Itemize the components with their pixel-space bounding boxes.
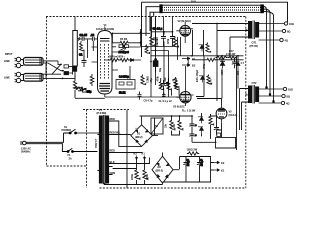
- wire row58: [105, 59, 142, 61]
- svg-text:OT2: OT2: [252, 81, 258, 85]
- svg-text:8Ω: 8Ω: [287, 30, 290, 34]
- filter box: [151, 118, 163, 134]
- wire selector to pot: [63, 66, 75, 78]
- zener D4: [199, 45, 205, 52]
- resistor R7b: [145, 45, 150, 55]
- svg-text:CL 9.1 μ x2: CL 9.1 μ x2: [159, 99, 173, 103]
- svg-text:4Ω: 4Ω: [286, 102, 289, 106]
- capacitor C8b: [162, 93, 166, 98]
- capacitor C4: [153, 27, 167, 47]
- resistor R4: [73, 81, 78, 98]
- svg-text:6.8 100μ: 6.8 100μ: [119, 75, 129, 79]
- wire bar left drop 3: [150, 12, 159, 31]
- junction dot a: [45, 62, 47, 64]
- wire K row: [104, 157, 163, 185]
- svg-text:100μF: 100μF: [201, 159, 204, 166]
- switch S1: [64, 129, 100, 134]
- resistor R3: [76, 87, 87, 90]
- tube V2 6L6: [176, 22, 193, 43]
- svg-text:16Ω: 16Ω: [289, 22, 294, 26]
- junction square v: [269, 93, 271, 95]
- selector network S2: [64, 65, 73, 75]
- capacitor C10: [189, 120, 197, 142]
- output transformer OT2: [249, 85, 259, 104]
- wire AC lines: [26, 133, 67, 152]
- resistor R16: [228, 56, 237, 59]
- resistor R16b: [206, 58, 216, 61]
- svg-text:(6CA4): (6CA4): [229, 113, 237, 117]
- capacitor C8: [138, 92, 142, 100]
- wire long A row: [151, 55, 244, 57]
- resistor R2b grid leak: [80, 41, 85, 59]
- svg-text:V2 (6L6GC): V2 (6L6GC): [178, 19, 192, 23]
- junction dot k: [191, 55, 193, 57]
- resistor R5: [112, 33, 140, 44]
- wire heater loop: [216, 131, 236, 149]
- wire ground bus: [75, 97, 181, 98]
- svg-text:25μ: 25μ: [87, 90, 92, 94]
- junction dot c: [62, 70, 64, 72]
- tube V5: [216, 104, 227, 123]
- feedback network box: [116, 75, 135, 95]
- svg-text:POWER: POWER: [62, 128, 72, 132]
- bridge rectifier D2: [152, 156, 173, 183]
- svg-text:700V CT: 700V CT: [95, 138, 98, 148]
- svg-text:TH: TH: [155, 124, 159, 128]
- trimmer R6: [119, 45, 129, 54]
- svg-text:4.7: 4.7: [241, 61, 245, 65]
- zener D6: [198, 117, 204, 124]
- terminal 4 ohm OT2: [259, 101, 290, 105]
- shielded heater bus bar: [159, 4, 263, 13]
- resistor R7: [150, 35, 155, 46]
- svg-text:CL 4.1 μ: CL 4.1 μ: [153, 27, 163, 31]
- wire interstage: [112, 29, 176, 47]
- jack J1 sleeve: [15, 63, 21, 67]
- arrow K2 out: [214, 161, 225, 165]
- wire bar right drop 3: [264, 12, 274, 102]
- arrow K1 out: [214, 169, 225, 173]
- svg-text:C8 4.7μ: C8 4.7μ: [144, 99, 153, 103]
- wire psu rails: [140, 99, 222, 143]
- resistor R23: [173, 119, 183, 136]
- svg-text:1k 2k: 1k 2k: [119, 91, 126, 95]
- power-supply dashed boundary top: [83, 109, 129, 111]
- terminal 16 ohm OT1: [259, 22, 294, 26]
- svg-text:LINE: LINE: [4, 76, 10, 80]
- junction square w: [272, 100, 274, 102]
- wire row 31.8: [151, 31, 173, 33]
- wire row 50.5: [151, 50, 169, 52]
- shielded cable 1: [21, 58, 43, 66]
- wire bias loop: [163, 157, 214, 183]
- resistor R18: [159, 78, 164, 96]
- svg-text:470k: 470k: [167, 38, 170, 44]
- wire bar left drop 1: [141, 2, 143, 57]
- resistor R25: [187, 148, 200, 156]
- terminal 8 ohm OT2: [259, 94, 290, 98]
- svg-text:10k: 10k: [173, 123, 176, 128]
- wire bar right drop 1: [264, 7, 267, 88]
- capacitor C5 electrolytic: [161, 80, 168, 90]
- resistor R24: [209, 115, 214, 126]
- svg-text:RED: RED: [110, 149, 116, 153]
- svg-text:INPUT: INPUT: [5, 52, 13, 56]
- junction dot t: [172, 31, 174, 33]
- svg-text:(P-6469): (P-6469): [97, 111, 107, 115]
- arrow B2: [182, 64, 196, 68]
- relay box K: [217, 133, 221, 137]
- resistor R13: [206, 43, 211, 53]
- chassis dashed boundary right: [245, 17, 247, 189]
- svg-text:.47μ: .47μ: [150, 78, 153, 83]
- capacitor C12 electrolytic: [183, 159, 190, 171]
- svg-text:.02: .02: [91, 33, 95, 37]
- resistor R10: [141, 75, 146, 86]
- junction dot b: [60, 64, 62, 66]
- junction dot s: [163, 31, 165, 33]
- svg-text:50/60Hz: 50/60Hz: [21, 149, 31, 153]
- capacitor C6: [153, 36, 158, 43]
- potentiometer R1 level: [73, 17, 80, 67]
- svg-text:ESS 100μF: ESS 100μF: [196, 69, 199, 82]
- balance pot R1b: [73, 67, 77, 81]
- junction dot f: [150, 61, 152, 63]
- svg-text:82k: 82k: [164, 77, 167, 82]
- arrow B1: [182, 57, 196, 61]
- junction dot h: [221, 55, 223, 57]
- svg-text:3A: 3A: [69, 156, 72, 160]
- label K2 arrow: [134, 152, 138, 160]
- junction dot j: [216, 23, 218, 25]
- wire bar left drop 2: [146, 7, 159, 36]
- svg-text:(BR-2): (BR-2): [135, 135, 143, 139]
- svg-text:150Ω 2W: 150Ω 2W: [187, 148, 198, 152]
- svg-text:R₂₂ 1 Ω 3W: R₂₂ 1 Ω 3W: [182, 109, 196, 113]
- wire driver verticals: [152, 17, 173, 56]
- electrolytic C7: [153, 59, 158, 73]
- zener D7: [198, 127, 204, 134]
- wire plate rails: [192, 24, 249, 151]
- chassis dashed boundary bottom-left: [47, 165, 87, 167]
- wire heater verticals: [151, 17, 181, 98]
- resistor R14: [207, 75, 212, 85]
- svg-text:8Ω: 8Ω: [287, 95, 290, 99]
- resistor R20: [135, 169, 140, 185]
- diode D3b: [235, 62, 241, 69]
- svg-text:R5 R6: R5 R6: [120, 37, 128, 41]
- svg-text:(PT-65): (PT-65): [250, 44, 258, 48]
- junction dot n: [171, 115, 173, 117]
- power transformer PT1: [97, 115, 112, 184]
- wire R6 to feedback box: [124, 50, 130, 79]
- capacitor C1: [79, 53, 87, 68]
- chassis dashed boundary left: [46, 17, 48, 167]
- tube V1 12AX7 envelope: [92, 27, 119, 98]
- tube V3 6L6: [176, 66, 193, 106]
- svg-text:C2 .05: C2 .05: [80, 33, 88, 37]
- junction dot e: [140, 32, 142, 34]
- resistor R19: [167, 78, 172, 96]
- fuse F1: [67, 148, 73, 152]
- junction dot d: [62, 78, 64, 80]
- diode D8: [129, 59, 137, 62]
- junction dot i: [237, 55, 239, 57]
- svg-text:4Ω: 4Ω: [285, 39, 288, 43]
- power-supply dashed boundary bottom: [100, 187, 247, 189]
- junction dot g: [155, 50, 157, 52]
- svg-text:(BR-2): (BR-2): [156, 169, 164, 173]
- wire input crossover: [43, 61, 64, 79]
- junction square u: [265, 86, 267, 88]
- wire row 60: [192, 59, 244, 61]
- wire grid drop: [88, 40, 94, 59]
- resistor R22: [165, 119, 175, 136]
- capacitor C13 electrolytic: [197, 159, 204, 171]
- resistor R19b: [175, 78, 180, 96]
- resistor R11: [173, 37, 178, 48]
- wire bar left drop 4: [153, 12, 155, 16]
- jack J2 sleeve: [15, 78, 21, 82]
- svg-text:5879 ■ 5879 •: 5879 ■ 5879 •: [109, 55, 125, 59]
- wire fuse to PT: [73, 151, 97, 153]
- capacitor C9: [232, 59, 237, 68]
- label K1 arrow: [142, 152, 146, 160]
- jack J1 tip: [15, 57, 21, 61]
- svg-text:10k: 10k: [165, 123, 168, 128]
- svg-text:100μF: 100μF: [187, 159, 190, 166]
- resistor R8: [109, 55, 125, 62]
- svg-text:40μ: 40μ: [159, 67, 162, 72]
- svg-text:V3 6L6GC: V3 6L6GC: [173, 105, 185, 109]
- svg-text:10k: 10k: [156, 42, 159, 47]
- bridge rectifier D1: [131, 125, 153, 147]
- resistor R2: [90, 74, 94, 86]
- diode D3: [220, 61, 225, 68]
- jack J2 tip: [15, 72, 21, 76]
- junction dot q: [112, 32, 114, 34]
- svg-text:12AX7 (ECC83): 12AX7 (ECC83): [96, 27, 114, 31]
- capacitor C5b: [170, 33, 175, 47]
- svg-text:GRN: GRN: [110, 171, 116, 175]
- wire above bus bar: [142, 2, 288, 22]
- AC plug P1: [20, 141, 26, 145]
- junction dot r: [140, 42, 142, 44]
- terminal 16 ohm OT2: [259, 87, 293, 91]
- terminal 8 ohm OT1: [259, 29, 291, 33]
- resistor R9: [119, 58, 130, 61]
- svg-text:RED: RED: [110, 117, 116, 121]
- svg-text:LINE: LINE: [4, 59, 10, 63]
- capacitor C3 coupling: [88, 33, 98, 41]
- wire heater drop: [104, 110, 127, 188]
- resistor R21: [143, 169, 148, 185]
- wire D2 connections: [163, 153, 180, 185]
- svg-text:220Ω: 220Ω: [146, 174, 149, 180]
- wire v222: [188, 56, 238, 99]
- svg-text:470k: 470k: [157, 76, 160, 82]
- shielded cable 2: [21, 74, 43, 82]
- junction dot o: [179, 115, 181, 117]
- resistor R15: [216, 56, 228, 59]
- resistor R12: [174, 77, 179, 88]
- svg-text:220Ω: 220Ω: [131, 174, 134, 180]
- capacitor C2 coupling: [80, 33, 89, 41]
- cathode bypass C1b: [75, 88, 92, 94]
- junction dot m: [168, 82, 170, 84]
- wire D1 connections: [113, 116, 159, 153]
- power-supply dashed boundary left: [86, 110, 88, 189]
- svg-text:OT1: OT1: [252, 41, 258, 45]
- terminal 4 ohm OT1: [259, 38, 288, 42]
- chassis dashed boundary top: [46, 16, 246, 18]
- svg-text:16Ω: 16Ω: [288, 88, 293, 92]
- junction dot p: [191, 115, 193, 117]
- svg-text:BLK: BLK: [191, 0, 196, 3]
- wire bar right drop 2: [264, 9, 271, 95]
- zener D5: [199, 76, 205, 83]
- capacitor C11: [214, 124, 219, 135]
- output transformer OT1: [249, 21, 259, 40]
